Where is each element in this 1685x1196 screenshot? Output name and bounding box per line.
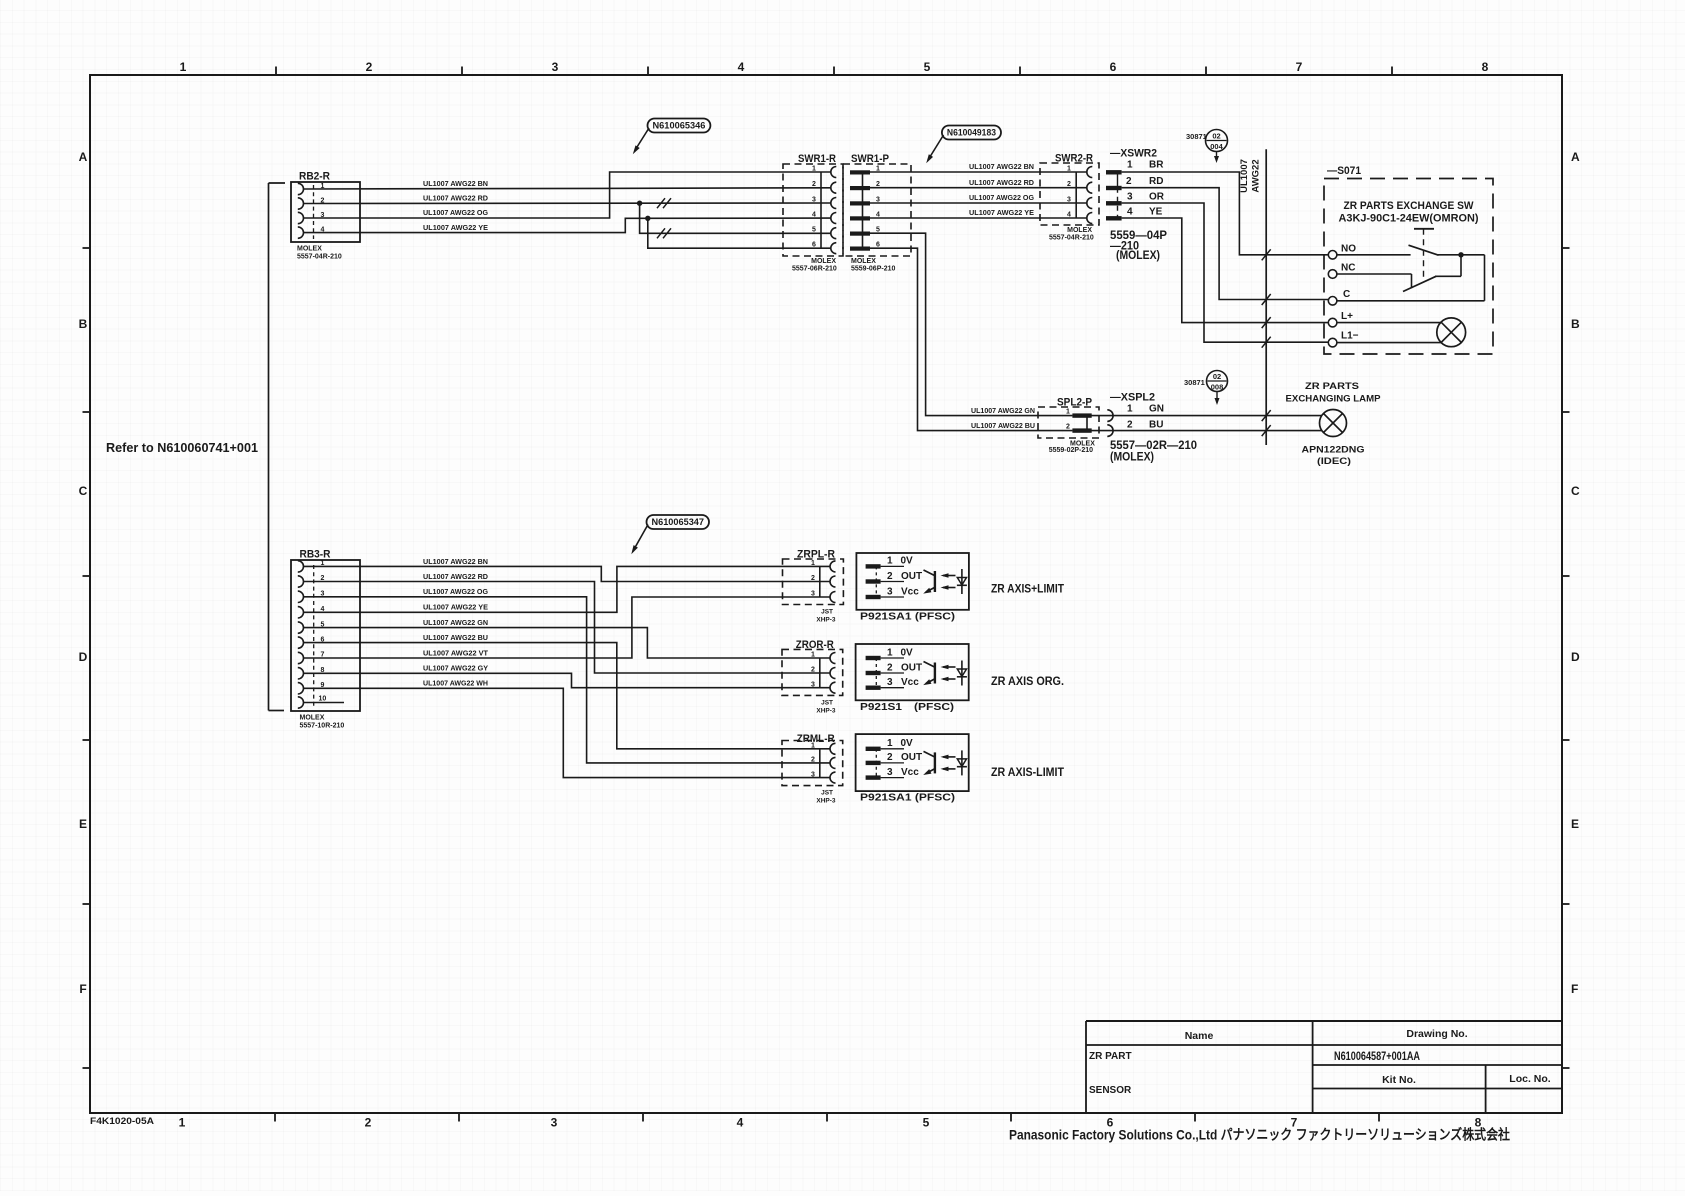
bottom grid ticks — [275, 1113, 1379, 1122]
crossover slash on GN wire — [1262, 410, 1271, 421]
svg-text:1: 1 — [179, 1116, 186, 1130]
wire OG RB2 pin3 to SWR1-R pin1 — [304, 172, 831, 218]
svg-text:5557-04R-210: 5557-04R-210 — [297, 254, 342, 261]
wire BR XSWR2 to S071 NO — [1122, 172, 1329, 255]
svg-text:P921SA1 (PFSC): P921SA1 (PFSC) — [860, 610, 955, 622]
crossover slash on OR wire — [1262, 337, 1271, 348]
svg-text:0V: 0V — [901, 647, 914, 658]
svg-text:E: E — [79, 817, 87, 831]
svg-text:A3KJ-90C1-24EW(OMRON): A3KJ-90C1-24EW(OMRON) — [1339, 213, 1479, 225]
switch box -S071 — [1324, 165, 1493, 354]
svg-text:1: 1 — [812, 166, 816, 173]
svg-text:1: 1 — [887, 738, 893, 749]
svg-text:4: 4 — [1127, 207, 1133, 218]
svg-text:5557-04R-210: 5557-04R-210 — [1049, 235, 1094, 242]
svg-text:APN122DNG: APN122DNG — [1302, 445, 1365, 456]
drawing border frame — [90, 75, 1562, 1113]
photo sensor U-ZRPL — [856, 553, 969, 610]
svg-text:MOLEX: MOLEX — [851, 258, 876, 265]
svg-text:1: 1 — [887, 556, 893, 567]
svg-text:ZR AXIS-LIMIT: ZR AXIS-LIMIT — [991, 765, 1065, 779]
svg-text:NC: NC — [1341, 263, 1355, 274]
wire YE XSWR2 to S071 L+ — [1122, 218, 1329, 323]
svg-text:UL1007 AWG22 YE: UL1007 AWG22 YE — [423, 223, 488, 232]
svg-text:JST: JST — [821, 790, 833, 797]
cable bracket joining RB2-R and RB3-R — [269, 183, 286, 711]
svg-text:Panasonic Factory Solutions Co: Panasonic Factory Solutions Co.,Ltd パナソニ… — [1009, 1127, 1510, 1143]
svg-text:5: 5 — [923, 1116, 930, 1130]
junction dot on YE wire — [645, 216, 650, 221]
svg-text:5559-02P-210: 5559-02P-210 — [1049, 447, 1093, 454]
svg-text:2: 2 — [811, 757, 815, 764]
connector SPL2-P — [1038, 397, 1099, 455]
svg-text:XHP-3: XHP-3 — [816, 707, 836, 714]
svg-text:UL1007 AWG22 GN: UL1007 AWG22 GN — [971, 406, 1035, 415]
wire GN SWR1-P pin5 down to SPL2-P pin1 — [870, 233, 1072, 415]
wire WH RB3 pin9 to ZRML-R pin3 — [304, 688, 831, 777]
svg-text:OUT: OUT — [901, 752, 922, 763]
terminal NC — [1328, 263, 1355, 279]
svg-text:1: 1 — [180, 60, 187, 74]
svg-text:UL1007 AWG22 RD: UL1007 AWG22 RD — [423, 572, 489, 581]
wire OG SWR1-P to SWR2-R pin3 — [870, 202, 1087, 204]
svg-text:MOLEX: MOLEX — [300, 715, 325, 722]
switch contact mechanism — [1337, 229, 1485, 301]
svg-text:8: 8 — [1482, 60, 1489, 74]
svg-text:ZR PART: ZR PART — [1089, 1051, 1132, 1062]
svg-text:3: 3 — [552, 60, 559, 74]
svg-text:N610049183: N610049183 — [947, 128, 996, 138]
svg-text:UL1007 AWG22 OG: UL1007 AWG22 OG — [969, 193, 1034, 202]
svg-text:D: D — [79, 650, 88, 664]
revision balloon 02/008 — [1184, 371, 1228, 406]
svg-text:UL1007 AWG22 WH: UL1007 AWG22 WH — [423, 679, 488, 688]
wire VT RB3 pin7 to ZRPL-R pin3 — [304, 597, 831, 658]
svg-text:F4K1020-05A: F4K1020-05A — [90, 1116, 154, 1127]
callout N610049183 — [926, 126, 1001, 164]
svg-text:2: 2 — [1126, 176, 1132, 187]
svg-text:P921S1: P921S1 — [860, 701, 902, 713]
svg-text:UL1007 AWG22 BU: UL1007 AWG22 BU — [423, 633, 488, 642]
connector SWR1-R — [783, 153, 843, 273]
svg-text:UL1007: UL1007 — [1239, 159, 1250, 193]
junction dot on RD wire — [637, 201, 642, 206]
connector ZROR-R — [782, 639, 843, 714]
svg-text:2: 2 — [1067, 181, 1071, 188]
bottom grid column numbers — [179, 1116, 1482, 1130]
svg-text:N610065346: N610065346 — [653, 121, 706, 131]
svg-text:2: 2 — [365, 1116, 372, 1130]
svg-text:UL1007 AWG22 OG: UL1007 AWG22 OG — [423, 587, 488, 596]
svg-text:3: 3 — [1127, 191, 1133, 202]
svg-text:B: B — [1571, 317, 1580, 331]
photo sensor U-ZRML — [856, 734, 969, 791]
svg-text:3: 3 — [811, 771, 815, 778]
cable line UL1007 AWG22 vertical — [1239, 149, 1266, 445]
top grid column numbers — [180, 60, 1489, 74]
svg-text:1: 1 — [1067, 166, 1071, 173]
wire GN SPL2-P to lamp — [1072, 415, 1321, 417]
svg-text:Kit No.: Kit No. — [1382, 1074, 1416, 1086]
svg-text:5557-06R-210: 5557-06R-210 — [792, 266, 837, 273]
crossover slash on YE wire — [1262, 317, 1271, 328]
wire YE SWR1-P to SWR2-R pin4 — [870, 217, 1087, 219]
indicator lamp inside S071 — [1337, 318, 1466, 347]
svg-text:AWG22: AWG22 — [1251, 159, 1262, 192]
terminal L+ — [1328, 311, 1353, 327]
svg-text:OUT: OUT — [901, 662, 922, 673]
svg-text:JST: JST — [821, 609, 833, 616]
crossover slash on BR wire — [1262, 249, 1271, 260]
svg-text:XHP-3: XHP-3 — [816, 798, 836, 805]
svg-text:(IDEC): (IDEC) — [1317, 456, 1351, 467]
svg-text:6: 6 — [1110, 60, 1117, 74]
svg-text:ZRML-R: ZRML-R — [797, 733, 835, 745]
svg-text:EXCHANGING LAMP: EXCHANGING LAMP — [1286, 394, 1382, 405]
wire RD RB2 pin2 to SWR1-R pin3 — [304, 202, 831, 205]
svg-text:A: A — [1571, 150, 1580, 164]
terminal C — [1328, 289, 1350, 305]
svg-text:MOLEX: MOLEX — [811, 258, 836, 265]
svg-text:UL1007 AWG22 GY: UL1007 AWG22 GY — [423, 664, 488, 673]
svg-text:Refer to N610060741+001: Refer to N610060741+001 — [106, 440, 258, 455]
wire branch YE to SWR1-R pin6 — [648, 218, 831, 248]
crossover slash on BU wire — [1262, 425, 1271, 436]
svg-text:OUT: OUT — [901, 571, 922, 582]
svg-text:RD: RD — [1149, 176, 1163, 187]
svg-text:2: 2 — [1066, 424, 1070, 431]
svg-text:N610065347: N610065347 — [652, 517, 705, 527]
svg-text:(PFSC): (PFSC) — [914, 701, 954, 713]
svg-text:UL1007 AWG22 BN: UL1007 AWG22 BN — [969, 162, 1034, 171]
terminal L1- — [1328, 331, 1358, 347]
svg-text:UL1007 AWG22 YE: UL1007 AWG22 YE — [423, 603, 488, 612]
svg-text:UL1007 AWG22 BN: UL1007 AWG22 BN — [423, 557, 488, 566]
wire BU RB3 pin6 to ZRML-R pin1 — [304, 643, 831, 749]
wire BN RB2 pin1 to SWR1-R pin2 — [304, 188, 831, 189]
left grid ticks — [83, 248, 91, 1068]
svg-text:B: B — [79, 317, 88, 331]
svg-text:3: 3 — [551, 1116, 558, 1130]
svg-text:—S071: —S071 — [1327, 165, 1361, 177]
wire BU SWR1-P pin6 down to SPL2-P pin2 — [870, 248, 1072, 430]
svg-text:5557-10R-210: 5557-10R-210 — [300, 723, 345, 730]
svg-text:3: 3 — [811, 591, 815, 598]
svg-text:OR: OR — [1149, 191, 1165, 202]
svg-text:3: 3 — [811, 681, 815, 688]
svg-text:N610064587+001AA: N610064587+001AA — [1334, 1051, 1420, 1063]
wire GY RB3 pin8 to ZROR-R pin3 — [304, 673, 831, 687]
svg-text:1: 1 — [887, 647, 893, 658]
callout N610065347 — [631, 515, 709, 554]
svg-text:UL1007 AWG22 BU: UL1007 AWG22 BU — [971, 421, 1035, 430]
svg-text:L+: L+ — [1341, 311, 1353, 322]
svg-text:004: 004 — [1210, 142, 1223, 151]
svg-text:2: 2 — [1127, 419, 1133, 430]
svg-text:RB2-R: RB2-R — [299, 171, 330, 183]
svg-text:3: 3 — [887, 586, 893, 597]
svg-text:GN: GN — [1149, 404, 1164, 415]
svg-text:4: 4 — [812, 212, 816, 219]
connector ZRML-R — [782, 733, 843, 805]
svg-text:4: 4 — [738, 60, 745, 74]
svg-text:02: 02 — [1213, 372, 1221, 381]
svg-text:Drawing No.: Drawing No. — [1406, 1028, 1467, 1040]
svg-text:1: 1 — [1066, 409, 1070, 416]
svg-text:MOLEX: MOLEX — [297, 246, 322, 253]
svg-text:2: 2 — [887, 662, 893, 673]
wire OG RB3 pin3 to ZRML-R pin2 — [304, 597, 831, 763]
svg-text:Loc. No.: Loc. No. — [1509, 1073, 1550, 1085]
connector SWR1-P — [843, 153, 911, 273]
svg-text:Vcc: Vcc — [901, 677, 919, 688]
crossover slash on RD wire — [1262, 294, 1271, 305]
right grid ticks — [1562, 248, 1570, 1068]
wire YE RB3 pin4 to ZRPL-R pin1 — [304, 566, 831, 612]
svg-text:30871: 30871 — [1184, 378, 1205, 387]
svg-text:D: D — [1571, 650, 1580, 664]
wire BU SPL2-P to lamp — [1072, 430, 1322, 432]
svg-text:6: 6 — [812, 242, 816, 249]
wire GN RB3 pin5 to ZROR-R pin1 — [304, 628, 831, 658]
wire BN SWR1-P to SWR2-R pin1 — [870, 171, 1087, 173]
svg-text:C: C — [1343, 289, 1350, 300]
terminal NO — [1328, 244, 1356, 260]
svg-text:2: 2 — [887, 571, 893, 582]
svg-text:4: 4 — [1067, 212, 1071, 219]
connector RB3-R — [291, 549, 360, 730]
svg-text:UL1007 AWG22 YE: UL1007 AWG22 YE — [969, 208, 1034, 217]
svg-text:MOLEX: MOLEX — [1067, 227, 1092, 234]
receptacle -XSPL2 — [1107, 392, 1197, 464]
svg-text:JST: JST — [821, 699, 833, 706]
svg-text:2: 2 — [811, 667, 815, 674]
wire YE RB2 pin4 to SWR1-R pin4 — [304, 218, 831, 233]
svg-text:ZR AXIS ORG.: ZR AXIS ORG. — [991, 674, 1064, 688]
svg-text:E: E — [1571, 817, 1579, 831]
svg-text:10: 10 — [319, 696, 327, 703]
svg-text:UL1007 AWG22 OG: UL1007 AWG22 OG — [423, 208, 488, 217]
svg-text:(MOLEX): (MOLEX) — [1116, 248, 1160, 262]
svg-text:ZR PARTS: ZR PARTS — [1305, 381, 1359, 392]
svg-text:UL1007 AWG22 BN: UL1007 AWG22 BN — [423, 179, 488, 188]
svg-text:3: 3 — [1067, 197, 1071, 204]
svg-text:1: 1 — [811, 652, 815, 659]
svg-text:UL1007 AWG22 RD: UL1007 AWG22 RD — [423, 194, 489, 203]
svg-text:—XSPL2: —XSPL2 — [1110, 392, 1155, 404]
svg-text:4: 4 — [737, 1116, 744, 1130]
wire OR XSWR2 to S071 L1- — [1122, 203, 1329, 342]
connector SWR2-R — [1040, 153, 1099, 242]
svg-text:UL1007 AWG22 RD: UL1007 AWG22 RD — [969, 178, 1035, 187]
svg-text:SENSOR: SENSOR — [1089, 1085, 1132, 1096]
wire RD XSWR2 to S071 C — [1122, 188, 1329, 300]
svg-text:30871: 30871 — [1186, 132, 1207, 141]
svg-text:0V: 0V — [901, 556, 914, 567]
svg-text:ZR AXIS+LIMIT: ZR AXIS+LIMIT — [991, 582, 1065, 596]
title block — [1086, 1021, 1562, 1113]
wire RD SWR1-P to SWR2-R pin2 — [870, 187, 1087, 189]
connector RB2-R — [291, 171, 360, 261]
connector ZRPL-R — [783, 549, 844, 624]
svg-text:Vcc: Vcc — [901, 586, 919, 597]
svg-text:5559-06P-210: 5559-06P-210 — [851, 266, 895, 273]
plug -XSWR2 — [1106, 148, 1167, 263]
crossover mark on RD wire — [657, 198, 665, 208]
crossover mark on RD branch wire — [657, 228, 665, 238]
svg-text:C: C — [1571, 484, 1580, 498]
left grid row letters — [79, 150, 88, 996]
svg-text:2: 2 — [887, 752, 893, 763]
svg-text:1: 1 — [1127, 160, 1133, 171]
svg-text:2: 2 — [366, 60, 373, 74]
svg-text:P921SA1 (PFSC): P921SA1 (PFSC) — [860, 792, 955, 804]
svg-text:BR: BR — [1149, 160, 1164, 171]
top grid ticks — [276, 67, 1392, 76]
svg-text:1: 1 — [811, 560, 815, 567]
svg-text:2: 2 — [812, 181, 816, 188]
svg-text:RB3-R: RB3-R — [300, 549, 331, 561]
right grid row letters — [1571, 150, 1580, 996]
junction dot at switch common — [1458, 252, 1463, 257]
svg-text:ZR PARTS EXCHANGE SW: ZR PARTS EXCHANGE SW — [1344, 200, 1475, 212]
svg-text:3: 3 — [887, 767, 893, 778]
photo sensor U-ZROR — [856, 644, 969, 700]
svg-text:02: 02 — [1212, 132, 1220, 141]
ZR parts exchanging lamp — [1286, 381, 1382, 467]
svg-text:0V: 0V — [901, 738, 914, 749]
svg-text:XHP-3: XHP-3 — [816, 617, 836, 624]
svg-text:L1−: L1− — [1341, 331, 1359, 342]
svg-text:UL1007 AWG22 GN: UL1007 AWG22 GN — [423, 618, 488, 627]
svg-text:7: 7 — [1296, 60, 1303, 74]
wire BN RB3 pin1 to ZRPL-R pin2 — [304, 566, 831, 581]
svg-text:F: F — [79, 982, 86, 996]
svg-text:3: 3 — [887, 677, 893, 688]
svg-text:(MOLEX): (MOLEX) — [1110, 450, 1154, 464]
svg-text:3: 3 — [812, 197, 816, 204]
wire branch RD to SWR1-R pin5 — [640, 203, 831, 233]
svg-text:UL1007 AWG22 VT: UL1007 AWG22 VT — [423, 648, 488, 657]
svg-text:—XSWR2: —XSWR2 — [1110, 148, 1157, 160]
svg-text:5: 5 — [812, 227, 816, 234]
svg-text:A: A — [79, 150, 88, 164]
svg-text:F: F — [1571, 982, 1578, 996]
svg-text:1: 1 — [1127, 404, 1133, 415]
svg-text:C: C — [79, 484, 88, 498]
svg-text:Vcc: Vcc — [901, 767, 919, 778]
callout N610065346 — [633, 119, 711, 155]
svg-text:Name: Name — [1185, 1030, 1214, 1042]
wire RD RB3 pin2 to ZROR-R pin2 — [304, 582, 831, 674]
svg-text:YE: YE — [1149, 207, 1163, 218]
svg-text:2: 2 — [811, 575, 815, 582]
svg-text:BU: BU — [1149, 419, 1163, 430]
svg-text:1: 1 — [811, 743, 815, 750]
revision balloon 02/004 — [1186, 130, 1228, 164]
svg-text:NO: NO — [1341, 244, 1356, 255]
svg-text:5: 5 — [924, 60, 931, 74]
svg-text:008: 008 — [1211, 383, 1224, 392]
